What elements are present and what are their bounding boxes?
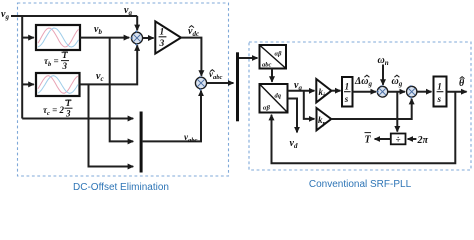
waveform blue in block 1 [38, 28, 79, 47]
integrator block 1/s (loop filter) [342, 77, 353, 107]
svg-text:τc = 2: τc = 2 [43, 105, 65, 117]
gain block 1/3 [155, 21, 181, 53]
integrator block 1/s (theta) [434, 77, 447, 107]
svg-text:αβ: αβ [263, 105, 271, 112]
wire omega_g to sum S4 [388, 91, 405, 93]
gain block ki [316, 79, 331, 102]
wire omega_g branch down to divider [396, 92, 398, 132]
wire vb from block1 to summing node [80, 37, 129, 39]
svg-text:ωg: ωg [392, 76, 403, 88]
Conventional SRF-PLL dashed box [249, 42, 471, 170]
svg-text:1: 1 [437, 82, 442, 92]
wire ki to integrator [331, 90, 340, 92]
svg-text:T: T [66, 98, 72, 108]
svg-text:÷: ÷ [396, 134, 401, 144]
svg-text:s: s [344, 94, 349, 104]
svg-text:va: va [124, 5, 132, 17]
wire kp to sum S4 [331, 99, 412, 119]
gain block kp [317, 108, 332, 130]
summing node S4 [407, 86, 417, 99]
svg-text:3: 3 [65, 109, 71, 119]
wire vdc to subtractor [181, 38, 201, 76]
wire delta-omega to sum [353, 91, 376, 93]
svg-text:Conventional SRF-PLL: Conventional SRF-PLL [309, 179, 412, 190]
wire bus to abc/alphabeta block [239, 57, 257, 59]
wire vabc-hat to PLL bus bar [207, 82, 234, 84]
wire 2pi into divider [408, 138, 417, 140]
DC-offset elimination dashed box [18, 3, 229, 176]
svg-text:DC-Offset Elimination: DC-Offset Elimination [73, 182, 169, 193]
svg-text:vd: vd [290, 138, 298, 150]
svg-text:Δωg: Δωg [354, 76, 373, 88]
svg-text:T: T [62, 50, 68, 60]
svg-text:abc: abc [262, 62, 272, 69]
wire T output of divider [375, 138, 391, 140]
transform block abc to alpha-beta [260, 45, 287, 69]
delay block 1 (tau_b) [36, 25, 80, 50]
summing node S3 [376, 86, 387, 97]
svg-text:vq: vq [294, 80, 302, 92]
wire omega_n into sum [382, 65, 384, 85]
wire vg vertical bus [21, 16, 23, 119]
wire vq [288, 90, 315, 92]
transform block alpha-beta to dq [260, 84, 288, 113]
waveform pink in block 2 [38, 76, 78, 94]
svg-text:vb: vb [94, 24, 102, 36]
wire theta output [447, 91, 467, 93]
svg-text:2π: 2π [417, 135, 429, 146]
svg-text:αβ: αβ [275, 51, 283, 58]
wire into delay block 2 [22, 83, 34, 85]
PLL input bus bar [236, 52, 239, 121]
wire vd [288, 99, 298, 133]
wire va branch to bus bar [22, 118, 133, 120]
svg-text:s: s [437, 94, 442, 104]
svg-text:1: 1 [345, 82, 350, 92]
svg-text:1: 1 [160, 28, 165, 38]
wire va drop into summing node [136, 16, 138, 30]
divider block [391, 134, 406, 145]
wire vb branch down to bus bar [110, 38, 134, 142]
waveform blue in block 2 [38, 76, 78, 94]
waveform pink in block 1 [38, 28, 79, 47]
svg-text:3: 3 [62, 61, 68, 71]
wire S4 to integrator 2 [417, 91, 432, 93]
svg-text:vc: vc [96, 71, 104, 83]
wire alpha-beta to dq block [271, 69, 273, 82]
wire vc from block2 right then up into summing node [80, 45, 138, 84]
svg-text:vg: vg [1, 9, 9, 21]
subtractor node S2 [195, 77, 206, 91]
svg-text:T: T [365, 135, 372, 146]
summing node S1 [131, 30, 143, 45]
wire vg entry and va top wire [11, 15, 137, 17]
wire S1 to gain triangle [143, 37, 154, 39]
wire vc branch down to bus bar [89, 84, 134, 166]
delay block 2 (tau_c) [36, 73, 80, 96]
wire vq branch to kp [304, 91, 315, 119]
svg-text:dq: dq [275, 93, 282, 100]
bus bar vabc [140, 112, 143, 173]
svg-text:θ: θ [459, 78, 465, 89]
svg-text:3: 3 [159, 39, 165, 49]
svg-text:τb =: τb = [44, 56, 59, 68]
wire theta feedback into dq block [272, 92, 456, 164]
wire vabc from bar to subtractor [143, 91, 201, 142]
wire into delay block 1 [22, 37, 34, 39]
